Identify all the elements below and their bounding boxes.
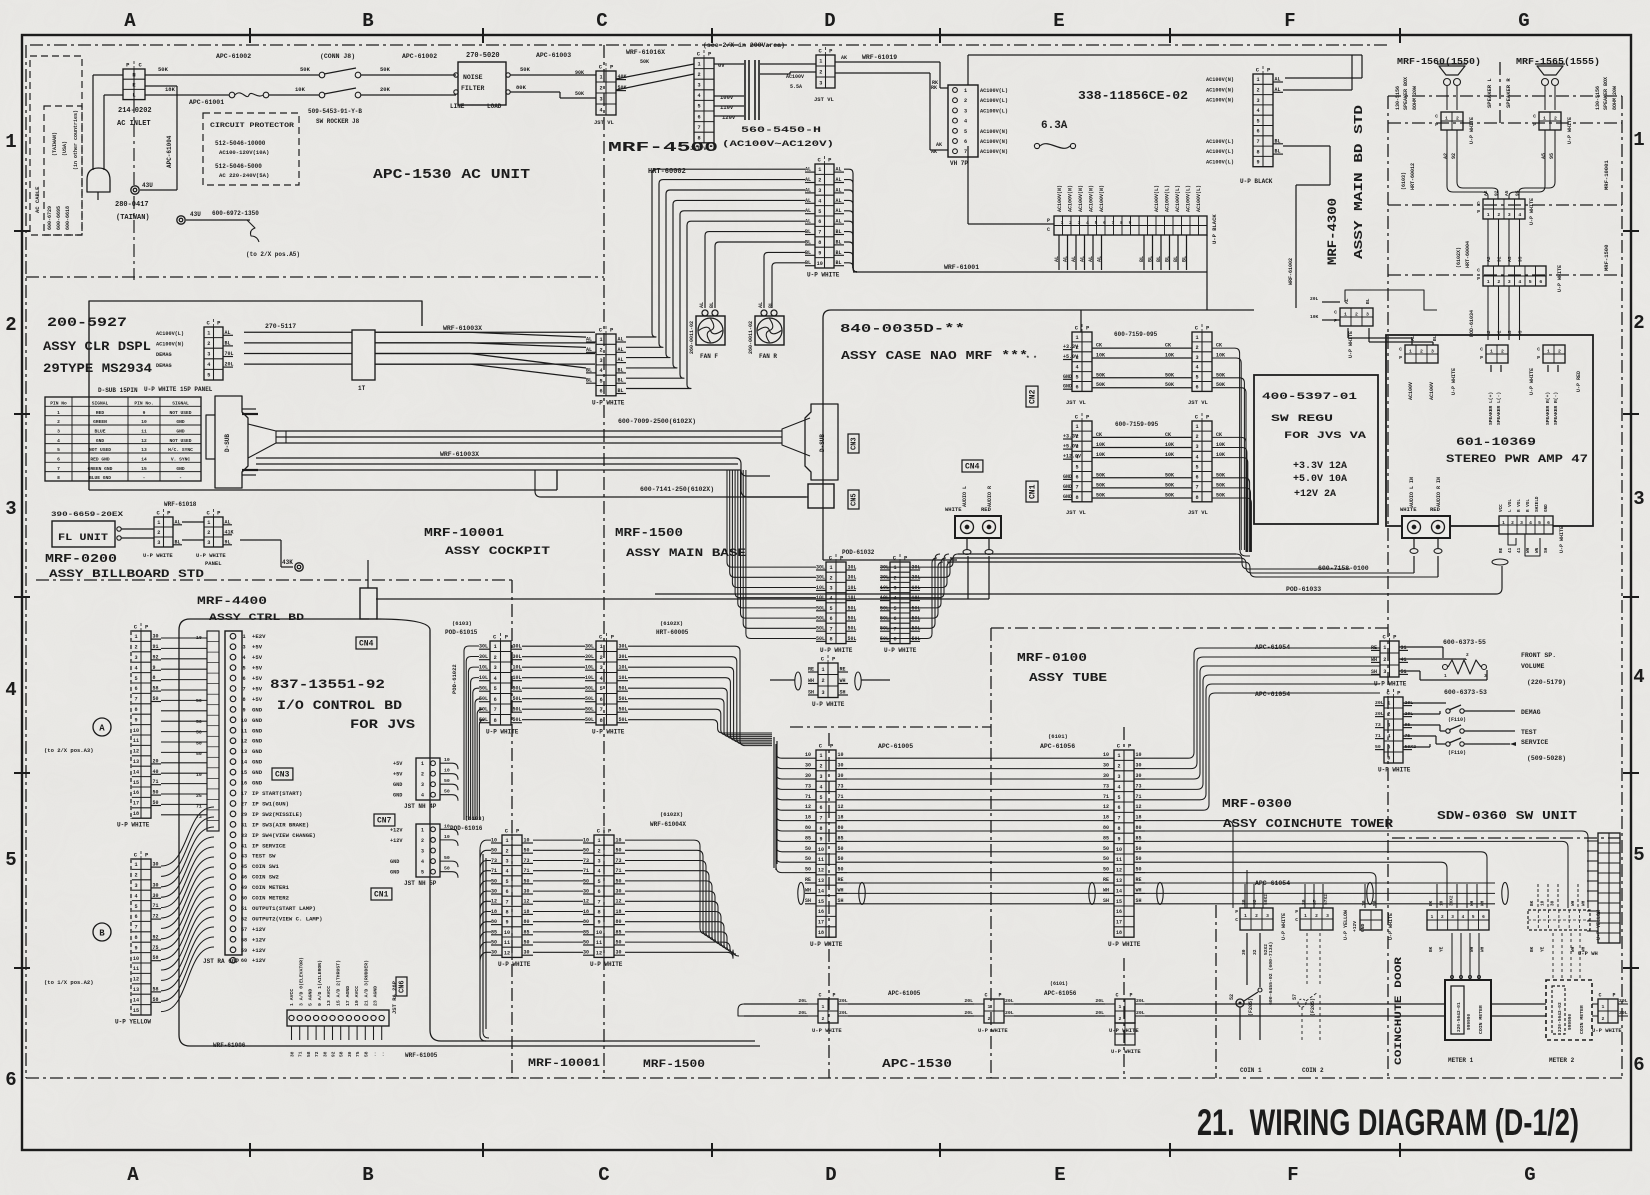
left stub ladder of 60p [196, 631, 219, 831]
lower cable from D-SUB bottom [256, 457, 735, 459]
speaker symbol [1439, 66, 1465, 75]
CN4 audio RCA pair [962, 460, 983, 472]
noise filter box 270-5020 [458, 62, 506, 105]
wires between pair [533, 839, 583, 841]
wire inlet to plug [93, 74, 123, 76]
coin 1 switch [1236, 999, 1244, 1007]
wire from top run to 9p [1361, 55, 1363, 78]
connector RE WH SH 3p [808, 655, 848, 708]
wires 6p to switches [1403, 702, 1446, 704]
wire riser to meters [1246, 870, 1248, 908]
amp header lower wires [1508, 534, 1516, 545]
connector 20L a [798, 993, 848, 1035]
circled B [93, 923, 111, 941]
ctrl board cable loop [179, 619, 430, 1046]
connector 6p fan feed [586, 326, 626, 406]
right exits curving down [920, 554, 958, 567]
4-pin horizontal connector [1477, 199, 1525, 219]
connector 20L d [1578, 993, 1628, 1035]
connector 7159 upper [1192, 324, 1212, 391]
AC cable dashed box [30, 56, 82, 235]
connector POD-61032 a [816, 554, 857, 654]
coin 2 switch dashed [1306, 933, 1308, 985]
connector volume 3p [1371, 633, 1408, 688]
left AL BL 3p connector [1334, 308, 1373, 326]
right D-SUB funnel [782, 418, 810, 456]
ferrite core 1T [352, 330, 375, 380]
fan drop wires [705, 232, 805, 308]
connector 7159 lower [1192, 413, 1212, 502]
connector coin C2 [1295, 908, 1333, 930]
circuit protector dashed box [203, 113, 299, 185]
wires 6pin down [1487, 286, 1489, 340]
connector POD-61032 b [880, 554, 921, 654]
wires A,B to 60p left [161, 637, 207, 639]
wire 9p to MRF-61002 [1283, 145, 1330, 147]
connector billboard 3p b [204, 509, 234, 547]
43K ground [240, 539, 281, 541]
left feed bundle rising from ctrl bd cable [480, 840, 491, 850]
frame tick marks [249, 28, 251, 43]
connector CN1 8p [1063, 413, 1092, 502]
connector top drop wires coin/meter [1244, 884, 1246, 908]
wires down to 4-pin [1447, 130, 1488, 199]
10p right wires to WRF-61001 [844, 169, 857, 272]
bottom speaker connectors [1399, 345, 1438, 363]
speaker 2-pin connectors [1435, 112, 1463, 130]
stereo amp box 601-10369 [1386, 335, 1593, 526]
video cable band [276, 430, 782, 432]
strip lower wires [1058, 235, 1060, 270]
cascading wires 6p to 10p and fans [626, 169, 805, 337]
meter 1 connector 6p [1427, 910, 1489, 930]
long audio wires [1413, 556, 1415, 573]
CN5 D-SUB small rect [808, 484, 834, 508]
fan FAN R [748, 302, 784, 360]
left riser into L1 [776, 752, 805, 758]
fuse 6.3A symbol [1034, 143, 1039, 148]
meter 1 [1445, 980, 1491, 1040]
wires ferrite to fan-feed connector [375, 331, 470, 333]
right edge ladder L4 [1587, 833, 1620, 943]
60-pin JST RA connector [225, 631, 323, 964]
CN4 connector to cockpit [360, 588, 377, 619]
region boundary dash-dot lines [30, 44, 1388, 46]
connector 9p U-P BLACK [1253, 66, 1283, 167]
connector CLR DSPL 5p [204, 319, 234, 380]
wires 4pin to 6pin [1487, 219, 1489, 266]
wires to 560-5450-H transformer connector [616, 64, 694, 79]
connector POD-61016 [491, 827, 533, 968]
terminal strip VH 7P [948, 85, 978, 157]
rocker switch J8 pole 1 [319, 72, 325, 78]
connector conn A 18p [117, 623, 161, 829]
wires between L1 and L2 [847, 757, 1103, 759]
circled A [93, 718, 111, 736]
wires between and right arcs down [522, 645, 585, 647]
wires between pair [880, 566, 920, 568]
wires right of L2 [1145, 648, 1380, 758]
funnel to cable [248, 424, 276, 458]
connector JST VL 3p [816, 47, 835, 88]
wire MRF-61019 to terminal strip [835, 61, 940, 63]
connector APC-61005 L1 [805, 743, 847, 949]
speaker symbol [1537, 66, 1563, 75]
cable WRF-61001 [853, 271, 1207, 273]
tails below 20L c [1115, 1023, 1135, 1045]
left feed bundle from video cable [727, 470, 816, 567]
connector 560-5450-H 8p [694, 50, 714, 143]
demag switch [1446, 709, 1450, 713]
connector 20L c [1095, 993, 1145, 1035]
right exits arcing down to 20L cable [625, 840, 706, 934]
pin table D-SUB 15PIN [45, 397, 201, 481]
connector WRF-61004X [583, 827, 625, 968]
meter 2 connector 6p [1528, 910, 1590, 930]
fuse APC-61001 [229, 92, 235, 98]
speaker path wires from amp area up [1345, 290, 1437, 310]
amp RCA jacks [1402, 516, 1450, 538]
connector POD-61015 [479, 633, 522, 736]
test/service switches [1446, 729, 1450, 733]
connecting wires bottom speaker area [1347, 328, 1349, 338]
bracket to D-SUB [206, 415, 215, 459]
power bundle to audio wire [1240, 550, 1250, 556]
wire top run [967, 55, 969, 85]
connector HRT-60005 [585, 633, 628, 736]
amp 6-pin header [1499, 516, 1553, 534]
connector demag 6p [1375, 689, 1416, 774]
20L wires [848, 1003, 974, 1005]
connector coin C1 [1235, 908, 1273, 930]
CN1 to 7159 wires [1092, 436, 1192, 438]
rocker switch J8 pole 2 [319, 92, 325, 98]
JST NH 4P connector [393, 757, 458, 801]
connector AC inlet 214-0202 [123, 61, 145, 100]
+12V 2p [1360, 910, 1382, 930]
A/D header JST RA 26P [287, 957, 389, 1057]
case outline [823, 310, 1254, 560]
AC plug 280-0417 [87, 168, 110, 192]
connector 20L b [964, 993, 1014, 1035]
audio bus to amp [958, 553, 1236, 555]
connector 10p fanout [805, 156, 844, 279]
CN5 boxed label [848, 490, 859, 509]
FL UNIT box [52, 521, 115, 547]
ground 43U near inlet [145, 85, 177, 87]
CN3 boxed label [848, 434, 859, 453]
CN2 to 7159 wires [1092, 347, 1192, 349]
JST NH 5P connector [390, 823, 458, 877]
monitor assy outline box [89, 301, 422, 490]
connector JST VL 4p [596, 63, 627, 115]
18-pin horizontal connector [1047, 216, 1207, 235]
audio line to RCA [376, 598, 989, 600]
D-SUB connector left [215, 396, 248, 488]
transformer winding bars [714, 63, 744, 65]
CN3 boxed [272, 768, 293, 780]
ground 43U 600-6972-1350 [177, 216, 185, 224]
connector conn B 15p [115, 851, 161, 1026]
FL unit circles [117, 527, 121, 531]
meter 2 dashed [1546, 980, 1592, 1040]
SW REGU box 400-5397-01 [1254, 375, 1378, 524]
shield ovals on WH row [798, 882, 804, 904]
fan FAN F [689, 302, 725, 360]
connector billboard 3p a [154, 509, 182, 547]
connector APC-61005 L2 [1103, 743, 1145, 949]
wires CLR DSPL to WRF-61003X 5p [244, 331, 352, 333]
connector CN2 6p [1063, 324, 1092, 391]
RE WH SH continuation to right [1145, 882, 1495, 884]
